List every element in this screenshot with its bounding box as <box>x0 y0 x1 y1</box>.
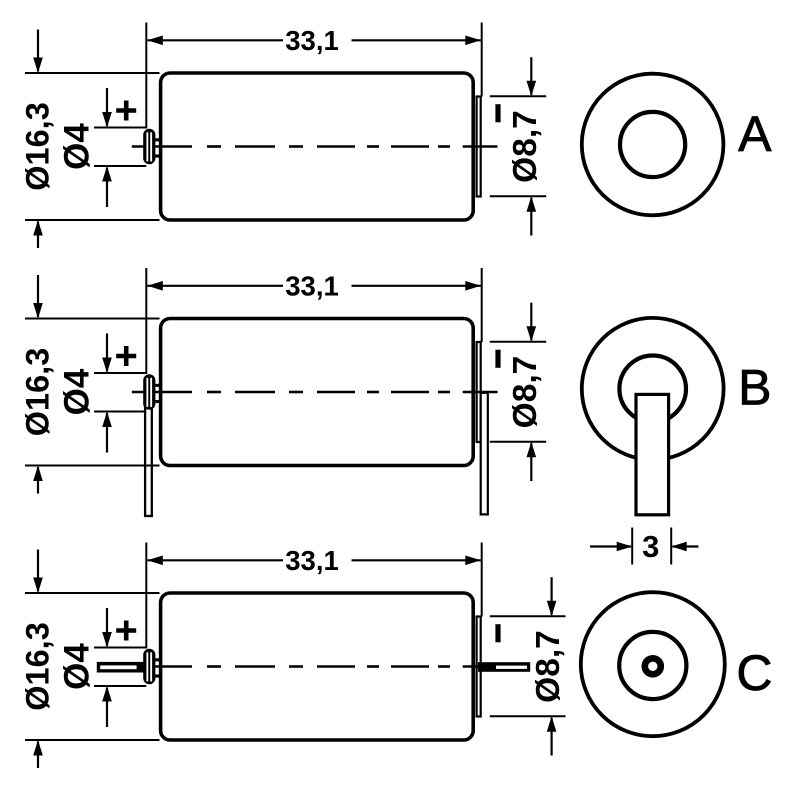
svg-text:Ø8,7: Ø8,7 <box>507 356 544 429</box>
solder tab right (B side view) <box>481 393 488 515</box>
dimension line 33,1 with arrows (A) <box>147 36 481 46</box>
dimension text 33,1 (A) <box>285 25 339 56</box>
battery body A (side view) <box>161 73 474 220</box>
svg-text:Ø4: Ø4 <box>58 643 97 690</box>
dimension Ø4 arrows (C) <box>102 608 112 727</box>
svg-text:Ø4: Ø4 <box>58 368 97 415</box>
end view C: middle circle <box>619 632 686 699</box>
dimension Ø8,7 extension lines (C) <box>490 616 566 716</box>
minus sign (C) <box>495 624 500 642</box>
minus sign (A) <box>495 104 500 122</box>
svg-text:C: C <box>736 645 772 701</box>
dimension Ø4 arrows (B) <box>102 334 112 453</box>
dimension Ø16,3 extension lines (A) <box>25 73 160 220</box>
dimension Ø4 arrows (A) <box>102 88 112 207</box>
dimension line 33,1 with arrows (B) <box>147 281 481 291</box>
svg-text:Ø4: Ø4 <box>58 123 97 170</box>
solder tab left (B side view) <box>145 400 152 516</box>
dimension text Ø16,3 (A) <box>20 102 56 191</box>
plus sign (C) <box>116 621 136 641</box>
dimension Ø16,3 arrows (C) <box>33 550 43 769</box>
dimension 33,1 extension line right (C) <box>481 543 483 617</box>
dimension Ø8,7 arrows (B) <box>527 303 537 481</box>
dimension text Ø16,3 (C) <box>20 622 56 711</box>
dimension 33,1 extension line right (B) <box>481 268 483 342</box>
end view A: outer circle <box>582 74 724 216</box>
dimension 3 arrows (B end view) <box>590 542 699 552</box>
dimension text Ø4 (C) <box>58 643 97 690</box>
dimension text Ø8,7 (B) <box>507 356 544 429</box>
dimension Ø8,7 arrows (A) <box>527 57 537 235</box>
dimension 33,1 extension line right (A) <box>481 23 483 97</box>
dimension 3 extension lines (B end view) <box>632 528 671 565</box>
dimension text 33,1 (B) <box>285 270 339 301</box>
positive terminal pip C <box>143 649 160 685</box>
battery body C (side view) <box>161 593 474 740</box>
dimension Ø4 extension lines (C) <box>94 648 146 687</box>
svg-text:Ø16,3: Ø16,3 <box>20 348 56 437</box>
dimension Ø8,7 extension lines (A) <box>490 96 546 196</box>
negative terminal flat B <box>477 342 481 442</box>
negative terminal flat C <box>477 617 481 717</box>
svg-text:Ø16,3: Ø16,3 <box>20 102 56 191</box>
dimension text Ø8,7 (C) <box>530 630 567 703</box>
svg-text:A: A <box>738 106 772 162</box>
end view B: outer circle <box>582 318 724 460</box>
dimension text Ø4 (B) <box>58 368 97 415</box>
dimension Ø8,7 arrows (C) <box>547 577 557 755</box>
end view B: solder tab rectangle <box>636 394 669 514</box>
dimension text Ø8,7 (A) <box>507 110 544 183</box>
dimension text 33,1 (C) <box>285 545 339 576</box>
plus sign (B) <box>116 346 136 366</box>
end view B: inner circle <box>619 356 686 423</box>
axial wire lead right (C side view) <box>478 662 530 672</box>
dimension 33,1 extension line left (B) <box>145 268 147 374</box>
svg-text:Ø8,7: Ø8,7 <box>530 630 567 703</box>
svg-text:Ø8,7: Ø8,7 <box>507 110 544 183</box>
end view C: center wire circle <box>645 658 661 674</box>
dimension Ø16,3 extension lines (B) <box>25 319 160 466</box>
svg-text:33,1: 33,1 <box>285 270 339 301</box>
dimension line 33,1 with arrows (C) <box>147 556 481 566</box>
dimension 33,1 extension line left (A) <box>145 23 147 129</box>
end view C: outer circle <box>581 592 725 736</box>
plus sign (A) <box>116 101 136 121</box>
negative terminal flat A <box>477 97 481 197</box>
centerline (dash-dot axis) C <box>132 665 498 668</box>
battery body B (side view) <box>161 319 474 466</box>
minus sign (B) <box>495 350 500 368</box>
dimension Ø8,7 extension lines (B) <box>490 342 546 442</box>
end view A: inner circle <box>620 112 685 177</box>
centerline (dash-dot axis) A <box>132 145 498 148</box>
positive terminal pip B <box>143 374 160 410</box>
dimension text Ø4 (A) <box>58 123 97 170</box>
svg-text:B: B <box>738 359 771 415</box>
svg-text:Ø16,3: Ø16,3 <box>20 622 56 711</box>
dimension Ø4 extension lines (B) <box>94 373 146 412</box>
svg-text:33,1: 33,1 <box>285 25 339 56</box>
dimension text Ø16,3 (B) <box>20 348 56 437</box>
axial wire lead left (C side view) <box>97 662 145 673</box>
dimension Ø16,3 arrows (A) <box>33 30 43 249</box>
dimension Ø16,3 extension lines (C) <box>25 593 160 740</box>
svg-text:3: 3 <box>642 529 659 564</box>
centerline (dash-dot axis) B <box>132 391 498 394</box>
dimension 33,1 extension line left (C) <box>145 543 147 649</box>
dimension Ø16,3 bottom extension line over tab (B) <box>25 465 160 467</box>
svg-text:33,1: 33,1 <box>285 545 339 576</box>
dimension Ø4 extension lines (A) <box>94 128 146 167</box>
positive terminal pip A <box>143 129 160 165</box>
dimension Ø16,3 arrows (B) <box>33 275 43 494</box>
